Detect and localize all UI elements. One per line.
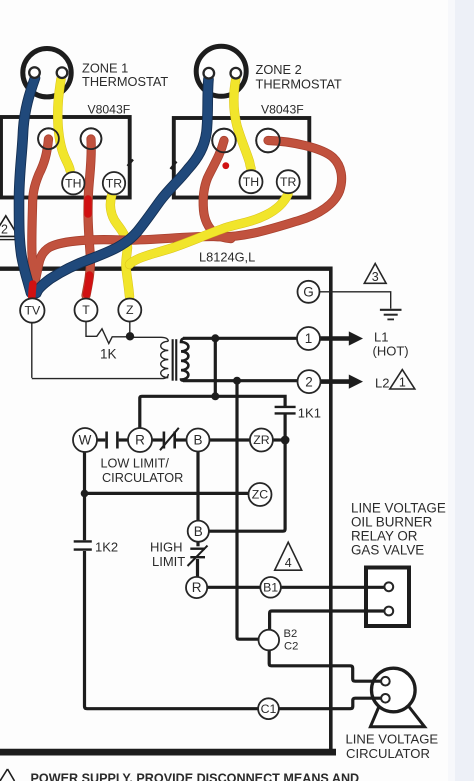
svg-text:1K2: 1K2 xyxy=(95,540,118,555)
svg-text:V8043F: V8043F xyxy=(88,103,131,117)
svg-text:THERMOSTAT: THERMOSTAT xyxy=(82,74,168,89)
svg-text:POWER SUPPLY. PROVIDE DISCONNE: POWER SUPPLY. PROVIDE DISCONNECT MEANS A… xyxy=(31,771,360,781)
svg-text:GAS VALVE: GAS VALVE xyxy=(351,543,424,558)
svg-text:W: W xyxy=(79,433,92,448)
svg-text:ZR: ZR xyxy=(253,433,270,447)
svg-text:TR: TR xyxy=(280,175,297,189)
svg-text:4: 4 xyxy=(285,556,292,570)
svg-text:1: 1 xyxy=(399,376,406,390)
svg-text:TH: TH xyxy=(65,176,81,190)
svg-text:L8124G,L: L8124G,L xyxy=(199,250,255,265)
svg-text:LINE VOLTAGE: LINE VOLTAGE xyxy=(351,501,446,516)
svg-text:1K: 1K xyxy=(100,347,117,362)
svg-text:R: R xyxy=(192,580,202,595)
svg-text:THERMOSTAT: THERMOSTAT xyxy=(256,77,342,92)
svg-text:ZONE 2: ZONE 2 xyxy=(256,62,302,77)
svg-text:LIMIT: LIMIT xyxy=(152,554,185,569)
svg-text:B1: B1 xyxy=(263,581,278,595)
svg-text:TV: TV xyxy=(24,304,41,318)
svg-text:Z: Z xyxy=(126,303,134,317)
svg-text:L1: L1 xyxy=(374,330,388,345)
svg-text:HIGH: HIGH xyxy=(150,540,183,555)
svg-text:ZC: ZC xyxy=(252,488,269,502)
svg-text:OIL BURNER: OIL BURNER xyxy=(351,515,433,530)
svg-text:B2: B2 xyxy=(284,628,298,640)
svg-text:V8043F: V8043F xyxy=(261,103,304,117)
svg-text:TR: TR xyxy=(106,176,123,190)
svg-text:B: B xyxy=(193,433,202,448)
svg-text:B: B xyxy=(194,524,203,539)
svg-text:1K1: 1K1 xyxy=(298,406,321,421)
svg-text:(HOT): (HOT) xyxy=(373,344,409,359)
svg-text:C1: C1 xyxy=(261,702,277,716)
svg-text:G: G xyxy=(303,285,314,300)
svg-text:L2: L2 xyxy=(375,376,389,391)
svg-text:R: R xyxy=(135,433,145,448)
svg-text:CIRCULATOR: CIRCULATOR xyxy=(102,471,183,485)
svg-text:1: 1 xyxy=(305,331,313,346)
svg-text:LINE VOLTAGE: LINE VOLTAGE xyxy=(346,732,439,747)
svg-text:RELAY OR: RELAY OR xyxy=(351,529,418,544)
svg-text:T: T xyxy=(82,303,90,317)
svg-text:3: 3 xyxy=(372,270,379,284)
svg-text:LOW LIMIT/: LOW LIMIT/ xyxy=(101,457,170,471)
svg-text:C2: C2 xyxy=(284,641,298,653)
svg-text:TH: TH xyxy=(243,175,259,189)
svg-text:CIRCULATOR: CIRCULATOR xyxy=(346,746,430,761)
svg-text:2: 2 xyxy=(305,374,313,389)
svg-text:2: 2 xyxy=(1,223,8,237)
